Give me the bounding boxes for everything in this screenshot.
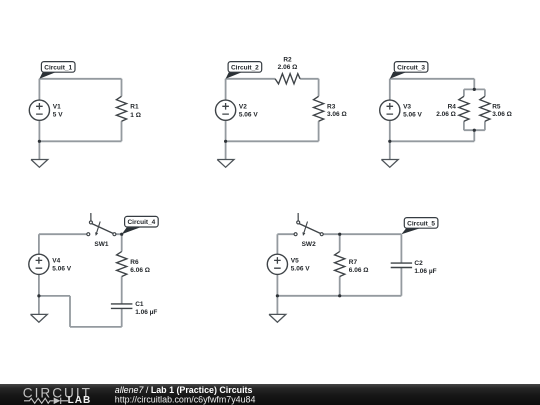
svg-text:Circuit_2: Circuit_2 [231,64,259,71]
svg-text:5.06 V: 5.06 V [52,266,71,273]
svg-text:V1: V1 [53,104,61,111]
svg-text:5.06 V: 5.06 V [291,266,310,273]
svg-text:R4: R4 [448,103,457,110]
svg-text:R1: R1 [130,104,139,111]
svg-text:R7: R7 [349,259,358,266]
svg-text:1.06 µF: 1.06 µF [414,268,436,275]
svg-text:Circuit_3: Circuit_3 [397,64,425,71]
svg-text:C1: C1 [135,301,144,308]
svg-text:3.06 Ω: 3.06 Ω [327,111,347,118]
svg-text:5.06 V: 5.06 V [403,112,422,119]
svg-text:Circuit_4: Circuit_4 [127,219,155,226]
svg-text:R3: R3 [327,103,336,110]
svg-text:3.06 Ω: 3.06 Ω [492,111,512,118]
svg-text:LAB: LAB [68,395,92,405]
svg-text:R6: R6 [130,259,139,266]
svg-text:R5: R5 [492,103,501,110]
svg-text:6.06 Ω: 6.06 Ω [130,267,150,274]
svg-text:1.06 µF: 1.06 µF [135,309,157,316]
svg-text:Circuit_1: Circuit_1 [44,64,72,71]
svg-text:V3: V3 [403,104,411,111]
svg-text:5.06 V: 5.06 V [239,112,258,119]
svg-text:5 V: 5 V [53,112,63,119]
svg-text:Circuit_5: Circuit_5 [407,220,435,227]
svg-text:V2: V2 [239,104,247,111]
svg-text:6.06 Ω: 6.06 Ω [349,267,369,274]
svg-text:C2: C2 [414,260,423,267]
svg-text:R2: R2 [283,56,292,63]
svg-text:V5: V5 [291,258,299,265]
svg-text:SW2: SW2 [302,241,316,248]
svg-text:SW1: SW1 [94,241,108,248]
svg-text:1 Ω: 1 Ω [130,112,141,119]
svg-text:2.06 Ω: 2.06 Ω [278,64,298,71]
svg-text:http://circuitlab.com/c6yfwfm7: http://circuitlab.com/c6yfwfm7y4u84 [115,394,256,404]
svg-text:V4: V4 [52,258,60,265]
svg-text:2.06 Ω: 2.06 Ω [436,111,456,118]
